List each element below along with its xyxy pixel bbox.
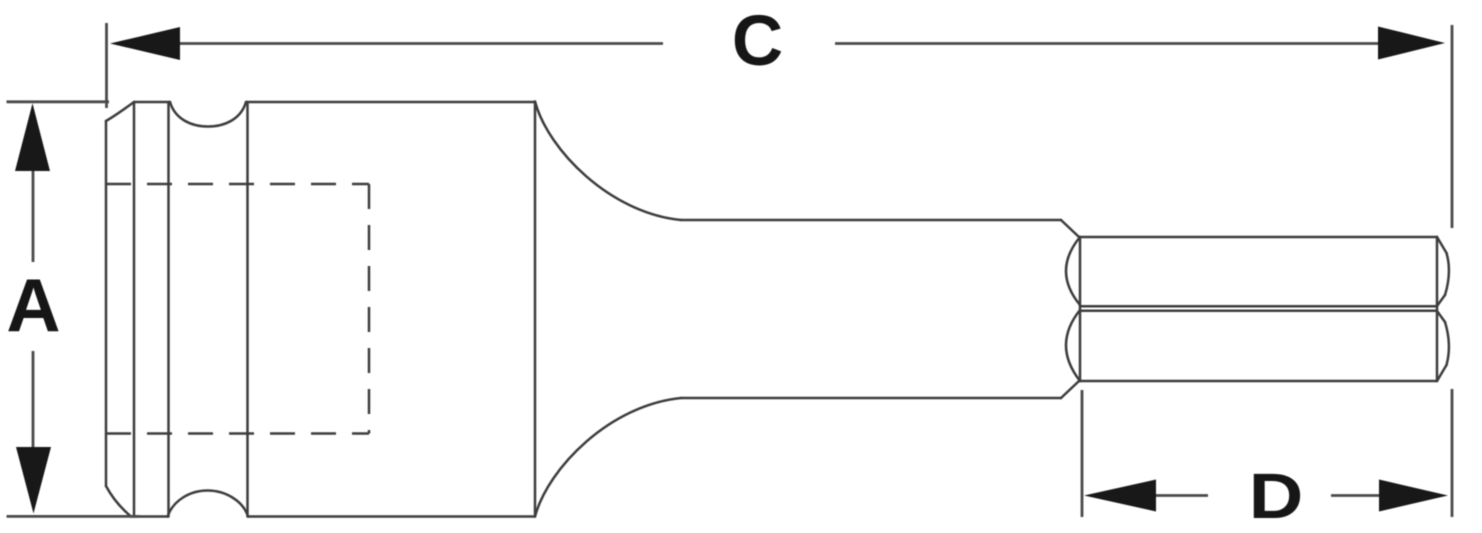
svg-text:D: D: [1249, 460, 1304, 531]
svg-text:C: C: [732, 2, 783, 81]
svg-text:A: A: [6, 263, 60, 347]
